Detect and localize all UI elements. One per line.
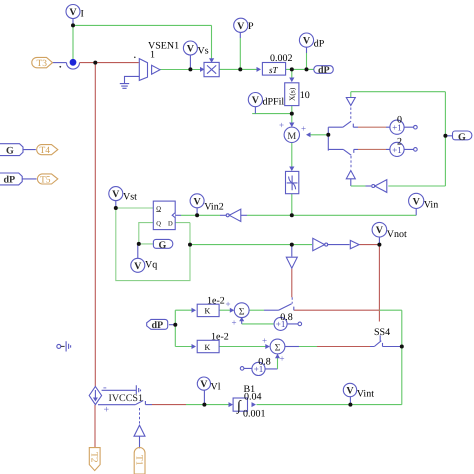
svg-text:2: 2 <box>397 137 402 148</box>
svg-text:V: V <box>303 36 311 47</box>
svg-text:V: V <box>413 196 421 207</box>
svg-text:Vin: Vin <box>424 200 438 211</box>
svg-text:Σ: Σ <box>275 343 281 354</box>
svg-text:Q: Q <box>156 220 161 227</box>
svg-text:Σ: Σ <box>239 306 245 317</box>
svg-text:V: V <box>200 379 208 390</box>
svg-text:1: 1 <box>150 50 155 61</box>
svg-text:V: V <box>193 196 201 207</box>
svg-text:I: I <box>81 9 84 20</box>
svg-text:+: + <box>232 318 237 328</box>
svg-text:V: V <box>134 261 142 272</box>
svg-text:10: 10 <box>300 90 310 101</box>
svg-text:dP: dP <box>314 39 325 50</box>
svg-text:SS4: SS4 <box>374 327 390 338</box>
svg-text:D: D <box>168 220 173 227</box>
svg-text:T4: T4 <box>40 146 51 156</box>
svg-text:0.8: 0.8 <box>258 356 271 367</box>
svg-text:sT: sT <box>269 65 279 75</box>
svg-text:V: V <box>237 21 245 32</box>
svg-text:IVCCS1: IVCCS1 <box>109 393 143 404</box>
svg-text:K: K <box>205 307 211 316</box>
svg-text:X(s): X(s) <box>288 87 297 101</box>
svg-text:0.04: 0.04 <box>244 392 262 403</box>
svg-text:Vl: Vl <box>211 382 221 393</box>
svg-text:+: + <box>301 124 306 134</box>
svg-text:Vs: Vs <box>198 46 209 57</box>
svg-text:T3: T3 <box>37 59 48 69</box>
svg-text:1e-2: 1e-2 <box>207 296 225 307</box>
svg-text:dPFilt: dPFilt <box>263 97 288 108</box>
svg-text:+: + <box>104 405 110 416</box>
svg-text:0.001: 0.001 <box>243 409 266 420</box>
svg-text:Vq: Vq <box>145 260 157 271</box>
svg-text:-: - <box>103 382 107 394</box>
svg-text:K: K <box>205 343 211 352</box>
svg-text:dP: dP <box>4 175 16 186</box>
svg-text:0.002: 0.002 <box>270 53 293 64</box>
svg-text:+: + <box>262 336 267 346</box>
svg-text:Vin2: Vin2 <box>204 202 223 213</box>
svg-text:V: V <box>112 189 120 200</box>
svg-text:T2: T2 <box>89 452 99 463</box>
svg-text:V: V <box>187 44 195 55</box>
svg-text:T5: T5 <box>40 176 51 186</box>
svg-text:T1: T1 <box>133 455 143 466</box>
svg-text:0: 0 <box>397 115 402 126</box>
svg-text:dP: dP <box>152 320 164 331</box>
svg-text:Vnot: Vnot <box>387 229 407 240</box>
svg-text:G: G <box>458 132 466 143</box>
svg-text:G: G <box>6 145 14 156</box>
svg-text:V: V <box>346 385 354 396</box>
svg-text:+: + <box>279 120 284 130</box>
svg-text:1e-2: 1e-2 <box>211 332 229 343</box>
svg-text:+: + <box>226 299 231 309</box>
svg-text:0.8: 0.8 <box>280 312 293 323</box>
svg-text:V: V <box>376 225 384 236</box>
svg-text:G: G <box>159 240 167 251</box>
svg-text:+: + <box>280 354 285 364</box>
svg-text:M: M <box>287 131 296 142</box>
svg-text:V: V <box>69 7 77 18</box>
svg-text:P: P <box>248 21 254 32</box>
svg-text:Vst: Vst <box>123 192 137 203</box>
svg-text:V: V <box>252 95 260 106</box>
svg-text:dP: dP <box>318 65 330 76</box>
svg-text:Vint: Vint <box>357 389 374 400</box>
